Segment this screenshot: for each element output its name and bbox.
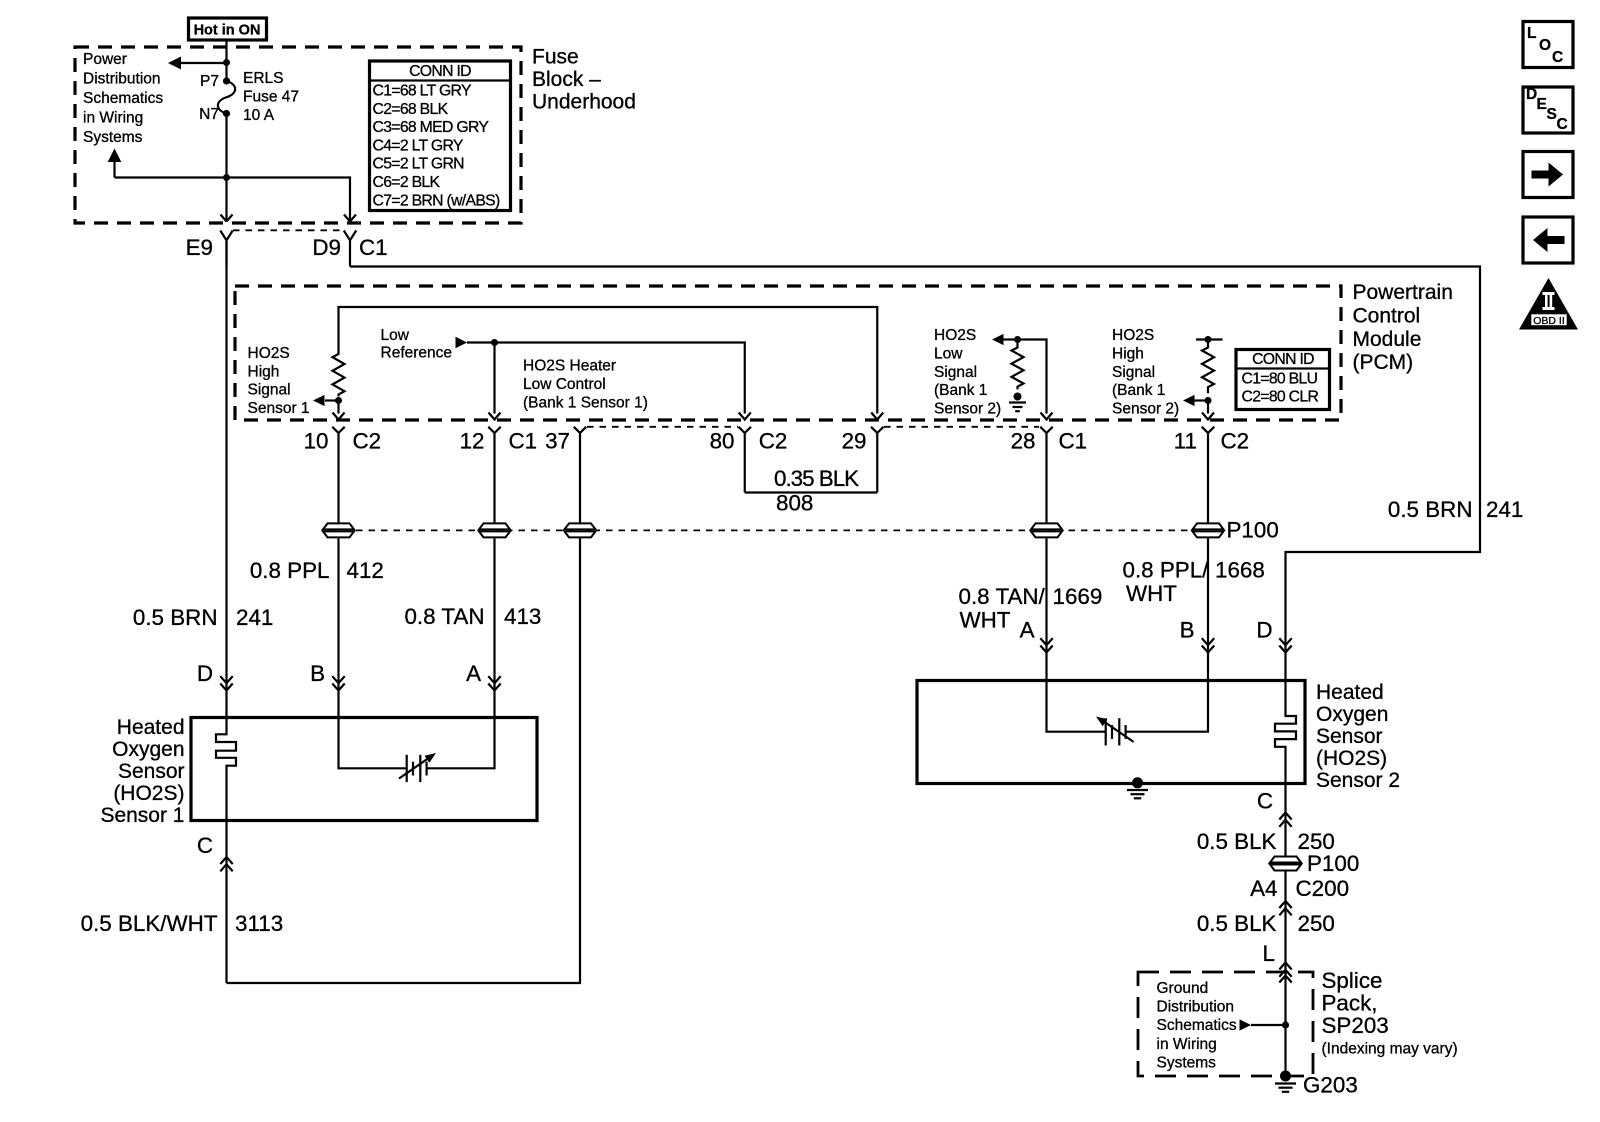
sensor 2 box: heated oxygen sensor: [917, 681, 1305, 784]
svg-text:Distribution: Distribution: [83, 71, 161, 88]
ground: PCM internal ground: [1009, 393, 1026, 412]
svg-text:ERLS: ERLS: [243, 70, 284, 87]
svg-text:29: 29: [842, 429, 867, 454]
svg-text:0.5 BRN: 0.5 BRN: [1388, 497, 1473, 522]
svg-text:37: 37: [545, 429, 570, 454]
inline connector on wire 1669: [1031, 522, 1063, 538]
sensor element wires B-A inside box: [339, 718, 495, 768]
svg-text:Heated: Heated: [1316, 681, 1384, 704]
svg-text:Underhood: Underhood: [532, 91, 636, 114]
svg-text:HO2S: HO2S: [248, 345, 290, 362]
svg-text:(Bank 1 Sensor 1): (Bank 1 Sensor 1): [523, 395, 648, 412]
icon left-arrow box: [1523, 217, 1573, 263]
svg-text:0.5 BRN: 0.5 BRN: [133, 605, 218, 630]
svg-text:Distribution: Distribution: [1157, 999, 1235, 1016]
svg-text:B: B: [1180, 618, 1195, 643]
note: ground distribution schematics reference: [1157, 980, 1237, 1071]
svg-text:Sensor: Sensor: [1316, 725, 1383, 748]
arrow into pin 28: [1041, 413, 1053, 420]
arrow into sensor1 pin D: [220, 676, 232, 690]
svg-text:0.8 TAN/: 0.8 TAN/: [959, 584, 1046, 609]
svg-text:(Bank 1: (Bank 1: [1112, 382, 1165, 399]
svg-text:C: C: [1557, 116, 1568, 133]
svg-text:Oxygen: Oxygen: [1316, 703, 1388, 726]
arrow into sensor2 pin B: [1202, 638, 1214, 652]
ground G203: [1275, 1071, 1296, 1092]
wire: down to pin 11: [1207, 401, 1209, 414]
svg-text:0.5 BLK: 0.5 BLK: [1197, 911, 1277, 936]
connector C2 boundary line (thin dashed) between 37 and 80: [587, 426, 738, 428]
svg-text:C3=68 MED GRY: C3=68 MED GRY: [373, 119, 490, 136]
arrow into sensor2 pin A: [1040, 638, 1052, 652]
junction node low reference / pin 12: [491, 339, 498, 346]
svg-text:P7: P7: [200, 73, 219, 90]
inline connector P100 on wire 250: [1270, 856, 1302, 872]
svg-text:0.8 TAN: 0.8 TAN: [404, 604, 484, 629]
svg-text:in Wiring: in Wiring: [83, 110, 143, 127]
wire: down to pin 12: [493, 343, 495, 414]
svg-text:C4=2 LT GRY: C4=2 LT GRY: [373, 137, 464, 154]
wire: sensor1 pin C down: [225, 820, 227, 983]
connector chevrons at pin C: [1279, 813, 1291, 827]
svg-text:C2: C2: [353, 429, 382, 454]
svg-text:High: High: [248, 363, 280, 380]
wire stub rail for high signal sensor 2 resistor: [1196, 338, 1223, 340]
arrow into fuse block pin D9: [344, 215, 356, 222]
arrowhead up to power distribution: [108, 149, 122, 163]
svg-text:C200: C200: [1296, 876, 1350, 901]
junction node low signal: [1014, 336, 1021, 343]
wire 808: 0.35 BLK jumper pin 80 to pin 29: [745, 491, 878, 493]
svg-text:C2: C2: [759, 429, 788, 454]
svg-text:Sensor: Sensor: [118, 760, 185, 783]
svg-text:C: C: [1257, 789, 1273, 814]
icon right-arrow box: [1523, 152, 1573, 198]
connector chevron at splice pack L: [1279, 963, 1291, 977]
conn id table (PCM): [1236, 350, 1330, 410]
svg-text:(HO2S): (HO2S): [1316, 747, 1387, 770]
connector pin D9 symbol: [344, 231, 356, 267]
svg-text:Block –: Block –: [532, 68, 601, 91]
ground distribution dashed box: [1138, 972, 1313, 1076]
svg-text:HO2S: HO2S: [934, 327, 976, 344]
svg-text:C1: C1: [359, 235, 388, 260]
svg-text:C6=2 BLK: C6=2 BLK: [373, 174, 441, 191]
Hot in ON box: [189, 18, 267, 40]
junction node on stub: [1205, 336, 1212, 343]
wire inside splice box to ground: [1284, 972, 1286, 1076]
svg-text:Heated: Heated: [117, 716, 185, 739]
svg-text:11: 11: [1174, 429, 1197, 454]
label Heated Oxygen Sensor (HO2S) Sensor 1: [100, 716, 184, 827]
connector chevrons at C200: [1279, 901, 1291, 915]
svg-text:10: 10: [304, 429, 329, 454]
svg-text:0.5 BLK/WHT: 0.5 BLK/WHT: [81, 911, 218, 936]
svg-text:Sensor 2): Sensor 2): [934, 400, 1001, 417]
connector chevrons on wire 3113 at pin C: [220, 857, 232, 871]
wire: horizontal run to D9 branch: [115, 178, 351, 217]
fuse 47 ERLS 10A symbol: [218, 77, 235, 117]
wire 241: from E9 down to sensor 1 pin D: [225, 240, 227, 718]
svg-text:Schematics: Schematics: [1157, 1017, 1237, 1034]
svg-text:12: 12: [460, 429, 485, 454]
svg-text:Fuse: Fuse: [532, 46, 579, 69]
svg-text:0.35 BLK: 0.35 BLK: [774, 466, 859, 491]
svg-text:Reference: Reference: [381, 345, 453, 362]
inline connector on wire 3113: [564, 522, 596, 538]
junction node splice SP203: [1282, 1021, 1289, 1028]
arrow into pin 80: [739, 413, 751, 420]
label Low Reference: [381, 327, 453, 362]
wire 250: sensor2 pin C down to splice pack: [1284, 783, 1286, 972]
svg-text:C: C: [197, 833, 213, 858]
pin 37 connector symbol: [574, 427, 586, 530]
svg-text:250: 250: [1298, 911, 1335, 936]
svg-text:(Indexing may vary): (Indexing may vary): [1322, 1041, 1458, 1058]
svg-text:P100: P100: [1307, 851, 1359, 876]
svg-text:C1: C1: [509, 429, 538, 454]
svg-text:C2=80 CLR: C2=80 CLR: [1242, 389, 1319, 406]
svg-text:P100: P100: [1227, 518, 1279, 543]
label Powertrain Control Module (PCM): [1353, 281, 1453, 374]
wire: down to pin 10: [337, 401, 339, 414]
svg-text:L: L: [1527, 25, 1536, 42]
resistor: high signal sensor 2 pull-up: [1202, 340, 1214, 394]
arrowhead from ground distribution note (points right): [1240, 1019, 1252, 1030]
wire label 0.8 PPL/ WHT: [1123, 558, 1210, 607]
svg-text:Systems: Systems: [83, 129, 143, 146]
svg-text:Sensor 1: Sensor 1: [248, 400, 310, 417]
wire: fuse output down: [225, 114, 227, 217]
fuse block underhood dashed box: [75, 47, 521, 223]
svg-text:241: 241: [1486, 497, 1523, 522]
arrowhead low signal sensor 2 (points left): [992, 334, 1004, 345]
svg-text:E: E: [1537, 96, 1547, 113]
arrow into pin 11: [1202, 413, 1214, 420]
heater element sensor 1: [216, 718, 236, 820]
svg-text:Power: Power: [83, 51, 127, 68]
svg-text:Fuse 47: Fuse 47: [243, 89, 299, 106]
svg-text:C2: C2: [1221, 429, 1250, 454]
svg-text:Ground: Ground: [1157, 980, 1209, 997]
wire stub up to power distribution arrow: [113, 161, 115, 178]
svg-text:808: 808: [776, 491, 813, 516]
note: power distribution schematics reference: [83, 51, 163, 146]
wire label 0.8 TAN/ WHT (right): [959, 584, 1046, 633]
wire from arrow to splice junction: [1251, 1024, 1286, 1026]
svg-text:Low: Low: [381, 327, 410, 344]
label HO2S Heater Low Control (Bank 1 Sensor 1): [523, 358, 648, 412]
conn id table (fuse block): [370, 61, 511, 211]
svg-text:OBD II: OBD II: [1533, 315, 1565, 327]
svg-text:Systems: Systems: [1157, 1054, 1217, 1071]
wire: branch to power distribution (left arrow): [180, 62, 227, 64]
svg-text:1668: 1668: [1215, 558, 1265, 583]
arrowhead left to power distribution: [168, 57, 181, 70]
svg-text:Sensor 1: Sensor 1: [100, 804, 184, 827]
svg-text:G203: G203: [1303, 1073, 1358, 1098]
svg-text:Signal: Signal: [1112, 364, 1155, 381]
svg-text:A: A: [466, 661, 481, 686]
wire: feed from Hot in ON down to fuse: [225, 40, 227, 81]
pin 12 connector symbol: [488, 427, 500, 530]
arrow into splice pack (down chevron at box top): [1279, 976, 1291, 983]
HARNESS splice line (thin dashed): [331, 529, 1193, 531]
svg-text:1669: 1669: [1053, 584, 1103, 609]
arrow into sensor1 pin B: [332, 676, 344, 690]
resistor: low signal bias to ground: [1012, 340, 1024, 390]
arrow into fuse block pin E9: [221, 215, 233, 222]
wire: low signal node to pin 28: [1004, 340, 1047, 414]
wire 413 down to sensor1 pin A: [493, 530, 495, 718]
label HO2S High Signal (Bank 1 Sensor 2): [1112, 327, 1179, 417]
resistor: HO2S high signal sensor 1 pull-up: [333, 352, 345, 396]
pin 11 connector symbol: [1202, 427, 1214, 530]
svg-text:C7=2 BRN (w/ABS): C7=2 BRN (w/ABS): [373, 192, 501, 209]
icon LOC box: [1523, 22, 1573, 68]
svg-text:D: D: [1256, 618, 1272, 643]
connector pin E9 symbol: [220, 231, 232, 267]
PCM: powertrain control module dashed box: [235, 286, 1341, 420]
inline connector on wire 413: [479, 522, 511, 538]
svg-text:C: C: [1552, 49, 1563, 66]
svg-text:Signal: Signal: [248, 382, 291, 399]
svg-text:Oxygen: Oxygen: [112, 738, 184, 761]
svg-text:C1: C1: [1059, 429, 1088, 454]
svg-text:Schematics: Schematics: [83, 90, 163, 107]
arrow into pin 10: [333, 413, 345, 420]
arrow into sensor2 pin D: [1279, 638, 1291, 652]
svg-text:D: D: [197, 661, 213, 686]
arrowhead high signal sensor 1: [313, 395, 325, 406]
wire: PCM internal rail from resistor to pin 29: [339, 307, 878, 414]
inline connector P100 on wire 1668: [1192, 522, 1224, 538]
wire stub to high signal arrow (sensor 2): [1195, 399, 1209, 401]
svg-text:Pack,: Pack,: [1322, 990, 1378, 1015]
svg-text:N7: N7: [199, 106, 219, 123]
svg-text:Signal: Signal: [934, 364, 977, 381]
svg-text:28: 28: [1011, 429, 1036, 454]
arrowhead low reference (points right): [456, 337, 468, 349]
svg-text:Splice: Splice: [1322, 968, 1383, 993]
svg-text:CONN ID: CONN ID: [409, 63, 471, 80]
label Fuse Block - Underhood: [532, 46, 636, 114]
svg-text:C1=80 BLU: C1=80 BLU: [1242, 371, 1318, 388]
svg-text:412: 412: [347, 558, 384, 583]
wire 412 down to sensor1 pin B: [337, 530, 339, 718]
svg-text:SP203: SP203: [1322, 1013, 1389, 1038]
svg-text:A: A: [1020, 618, 1035, 643]
junction node at resistor bottom (pin 10 net): [335, 397, 342, 404]
wire 1668 down to sensor2 pin B: [1207, 530, 1209, 681]
wire 241: from D9/C1 right and down to sensor 2 pin D: [350, 267, 1480, 682]
heater element sensor 2: [1275, 681, 1296, 783]
wire 1669 down to sensor2 pin A: [1045, 530, 1047, 681]
connector boundary line (thin dashed) between 29 and 28: [884, 426, 1039, 428]
svg-text:Sensor 2): Sensor 2): [1112, 400, 1179, 417]
connector C1 boundary line (thin dashed): [233, 229, 344, 231]
svg-text:C1=68 LT GRY: C1=68 LT GRY: [373, 83, 472, 100]
pin 10 connector symbol: [332, 427, 344, 530]
arrow into pin 29: [871, 413, 883, 420]
arrow into sensor1 pin A: [488, 676, 500, 690]
svg-text:Powertrain: Powertrain: [1353, 281, 1453, 304]
label Heated Oxygen Sensor (HO2S) Sensor 2: [1316, 681, 1400, 792]
ground: sensor 2 case ground: [1127, 777, 1148, 798]
icon DESC box: [1523, 86, 1573, 133]
sensor element (variable cell) sensor 1: [399, 753, 436, 782]
svg-text:C2=68 BLK: C2=68 BLK: [373, 101, 449, 118]
svg-text:WHT: WHT: [1126, 581, 1177, 606]
svg-text:Control: Control: [1353, 304, 1421, 327]
wire 3113: bottom return to pin 37: [227, 530, 581, 983]
label Splice Pack, SP203: [1322, 968, 1458, 1058]
svg-text:Low Control: Low Control: [523, 376, 606, 393]
svg-text:241: 241: [236, 605, 273, 630]
svg-text:HO2S Heater: HO2S Heater: [523, 358, 616, 375]
svg-text:(Bank 1: (Bank 1: [934, 382, 987, 399]
svg-text:Module: Module: [1353, 328, 1422, 351]
svg-text:0.8 PPL: 0.8 PPL: [250, 558, 330, 583]
svg-text:WHT: WHT: [960, 608, 1011, 633]
svg-text:0.8 PPL/: 0.8 PPL/: [1123, 558, 1210, 583]
svg-text:413: 413: [504, 604, 541, 629]
svg-text:(HO2S): (HO2S): [113, 782, 184, 805]
svg-text:3113: 3113: [235, 911, 283, 936]
inline connector on wire 412: [323, 522, 355, 538]
pin 29 connector symbol: [871, 427, 883, 493]
svg-text:High: High: [1112, 346, 1144, 363]
icon OBD II triangle: [1519, 278, 1578, 330]
wire stub to high signal arrow (sensor 1): [325, 399, 339, 401]
junction node at resistor bottom (pin 11 net): [1205, 397, 1212, 404]
svg-text:E9: E9: [186, 235, 213, 260]
svg-text:L: L: [1263, 941, 1275, 966]
svg-text:Low: Low: [934, 346, 963, 363]
svg-text:CONN ID: CONN ID: [1252, 351, 1314, 368]
arrow into pin 12: [489, 413, 501, 420]
sensor 1 box: heated oxygen sensor: [191, 718, 537, 821]
sensor element wires A-B inside box: [1047, 681, 1209, 732]
svg-text:Hot in ON: Hot in ON: [194, 23, 261, 39]
pin 80 connector symbol: [739, 427, 751, 493]
svg-text:B: B: [310, 661, 325, 686]
svg-text:(PCM): (PCM): [1353, 351, 1414, 374]
sensor element (variable cell) sensor 2: [1096, 717, 1134, 746]
svg-text:in Wiring: in Wiring: [1157, 1036, 1217, 1053]
svg-text:A4: A4: [1250, 876, 1277, 901]
svg-text:Sensor 2: Sensor 2: [1316, 769, 1400, 792]
svg-text:HO2S: HO2S: [1112, 327, 1154, 344]
svg-text:0.5 BLK: 0.5 BLK: [1197, 829, 1277, 854]
svg-text:80: 80: [710, 429, 735, 454]
junction node at feed branch: [223, 59, 230, 66]
svg-text:S: S: [1547, 106, 1557, 123]
label ERLS Fuse 47 10 A: [243, 70, 299, 124]
arrowhead high signal sensor 2: [1183, 395, 1195, 406]
label HO2S Low Signal (Bank 1 Sensor 2): [934, 327, 1001, 417]
label HO2S High Signal Sensor 1: [248, 345, 310, 417]
svg-text:C5=2 LT GRN: C5=2 LT GRN: [373, 156, 465, 173]
pin 28 connector symbol: [1040, 427, 1052, 530]
junction node on fuse output: [223, 174, 230, 181]
svg-text:O: O: [1539, 37, 1551, 54]
svg-text:D9: D9: [312, 235, 341, 260]
svg-text:10 A: 10 A: [243, 107, 275, 124]
wire: low reference rail to pin 80: [467, 343, 745, 414]
